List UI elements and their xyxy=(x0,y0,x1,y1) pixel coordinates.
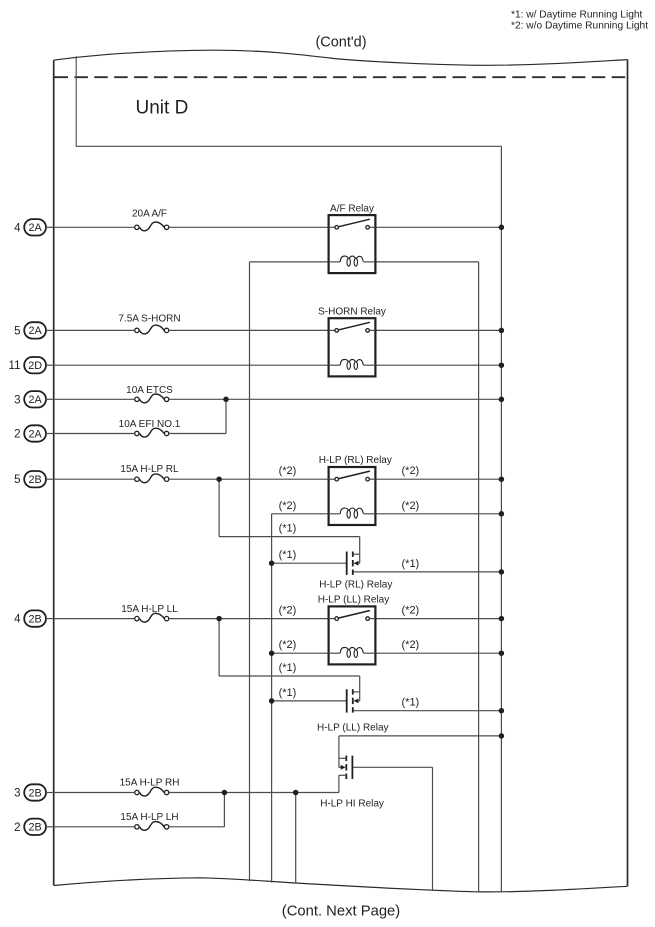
RL transistor drain riser xyxy=(359,537,361,555)
terminal 5 2A xyxy=(14,322,54,338)
fuse 15A H-LP RL xyxy=(120,464,179,483)
wire fuse ETCS to bus xyxy=(169,398,501,400)
junction bus D y=330.4 xyxy=(499,328,505,334)
svg-text:(*2): (*2) xyxy=(279,605,297,617)
riser down from RH line xyxy=(295,793,297,884)
svg-text:H-LP HI Relay: H-LP HI Relay xyxy=(320,798,384,809)
svg-text:(*2): (*2) xyxy=(402,605,420,617)
svg-text:(*2): (*2) xyxy=(279,465,297,477)
svg-text:(*2): (*2) xyxy=(402,639,420,651)
relay H-LP RL xyxy=(319,455,392,525)
svg-text:10A ETCS: 10A ETCS xyxy=(126,385,173,396)
junction RH riser xyxy=(293,790,299,796)
wire RL switch out to bus xyxy=(375,478,501,480)
fuse 15A H-LP LH xyxy=(120,812,178,831)
svg-text:(*2): (*2) xyxy=(279,639,297,651)
wire 4 2B to fuse H-LP LL xyxy=(54,618,135,620)
svg-text:(*1): (*1) xyxy=(279,549,297,561)
svg-text:A/F Relay: A/F Relay xyxy=(330,203,374,214)
page top torn edge xyxy=(54,50,628,65)
Unit D enclosure xyxy=(76,56,501,146)
svg-text:4: 4 xyxy=(14,614,21,626)
svg-text:(*2): (*2) xyxy=(402,465,420,477)
terminal 2 2A xyxy=(14,425,54,441)
junction bus D y=399.3 xyxy=(499,397,505,403)
wire 2 2A to fuse EFI xyxy=(54,433,135,435)
svg-text:4: 4 xyxy=(14,222,21,234)
HI transistor source riser xyxy=(338,775,340,792)
svg-text:(*2): (*2) xyxy=(402,500,420,512)
junction ETCS/EFI xyxy=(223,397,229,403)
svg-text:2: 2 xyxy=(14,429,20,441)
svg-text:3: 3 xyxy=(14,394,20,406)
HI transistor drain riser xyxy=(338,736,340,758)
bus D vertical xyxy=(500,146,502,892)
terminal 2 2B xyxy=(14,819,54,835)
fuse 10A EFI NO.1 xyxy=(119,419,181,437)
junction bus B y=653.2 xyxy=(269,650,275,656)
wire bus B to LL relay coil xyxy=(272,652,329,654)
fuse 15A H-LP RH xyxy=(120,778,180,797)
wire RL branch to transistor drain top xyxy=(219,536,360,538)
svg-text:2B: 2B xyxy=(28,787,41,799)
svg-text:11: 11 xyxy=(9,360,21,372)
svg-text:2B: 2B xyxy=(28,613,41,625)
svg-text:*2: w/o Daytime Running Light: *2: w/o Daytime Running Light xyxy=(511,21,648,32)
riser LL branch xyxy=(218,619,220,676)
fuse 10A ETCS xyxy=(126,385,173,403)
wire fuse RH to HI transistor source xyxy=(169,792,339,794)
svg-text:15A H-LP LH: 15A H-LP LH xyxy=(120,812,178,823)
svg-text:7.5A S-HORN: 7.5A S-HORN xyxy=(118,313,180,324)
junction bus D y=653.2 xyxy=(499,650,505,656)
wire fuse LL to LL relay switch xyxy=(169,618,328,620)
relay S-HORN xyxy=(318,306,386,376)
junction bus D y=365.2 xyxy=(499,362,505,368)
svg-text:(Cont. Next Page): (Cont. Next Page) xyxy=(282,904,400,920)
page left border xyxy=(53,60,55,885)
junction RL branch xyxy=(216,476,222,482)
wire S-HORN switch out to bus xyxy=(375,329,501,331)
terminal 11 2D xyxy=(9,357,54,373)
wire LL branch to transistor drain top xyxy=(219,675,360,677)
wire 11 2D to S-HORN relay coil xyxy=(54,364,329,366)
wire LL switch out to bus xyxy=(375,618,501,620)
svg-text:20A A/F: 20A A/F xyxy=(132,209,167,220)
junction bus D y=735.9 xyxy=(499,733,505,739)
wire HI transistor gate out xyxy=(352,766,432,768)
svg-text:(*1): (*1) xyxy=(279,523,297,535)
page bottom torn edge xyxy=(54,878,628,892)
fuse 7.5A S-HORN xyxy=(118,313,180,334)
junction bus D y=227.3 xyxy=(499,225,505,231)
wire LL transistor source to bus xyxy=(353,710,502,712)
svg-text:2A: 2A xyxy=(28,428,42,440)
junction bus D y=513.8 xyxy=(499,511,505,517)
svg-text:(Cont'd): (Cont'd) xyxy=(315,34,366,50)
HI gate drop to edge xyxy=(432,767,434,891)
wire fuse RL to RL relay switch xyxy=(169,478,328,480)
svg-text:2B: 2B xyxy=(28,474,41,486)
wire RL coil out to bus xyxy=(375,513,501,515)
terminal 5 2B xyxy=(14,471,54,487)
svg-text:S-HORN Relay: S-HORN Relay xyxy=(318,306,386,317)
junction bus D y=710.7 xyxy=(499,708,505,714)
wire 2 2B to fuse H-LP LH xyxy=(54,826,135,828)
junction bus D y=571.9 xyxy=(499,569,505,575)
wire fuse LH to riser xyxy=(169,826,224,828)
terminal 3 2B xyxy=(14,784,54,800)
wire S-HORN coil out to bus xyxy=(375,364,501,366)
dashed separator xyxy=(55,76,628,78)
junction bus D y=479.2 xyxy=(499,476,505,482)
relay H-LP LL xyxy=(318,595,390,665)
wire fuse A/F to A/F relay switch xyxy=(169,226,328,228)
junction RH/LH xyxy=(222,790,228,796)
junction bus B y=700.9 xyxy=(269,698,275,704)
svg-text:2A: 2A xyxy=(28,325,42,337)
svg-text:2: 2 xyxy=(14,822,20,834)
svg-text:(*1): (*1) xyxy=(402,696,420,708)
svg-text:15A H-LP RL: 15A H-LP RL xyxy=(120,464,179,475)
transistor H-LP HI relay (solid state) xyxy=(339,756,353,779)
svg-text:Unit D: Unit D xyxy=(136,97,189,118)
wire 3 2A to fuse ETCS xyxy=(54,398,135,400)
fuse 20A A/F xyxy=(132,209,169,231)
terminal 4 2B xyxy=(14,610,54,626)
svg-text:(*2): (*2) xyxy=(279,500,297,512)
svg-text:15A H-LP RH: 15A H-LP RH xyxy=(120,778,180,789)
wire RL transistor source to bus xyxy=(353,571,502,573)
terminal 3 2A xyxy=(14,391,54,407)
wire LL coil out to bus xyxy=(375,652,501,654)
svg-text:2B: 2B xyxy=(28,822,41,834)
relay A/F xyxy=(329,203,376,273)
transistor H-LP LL relay (solid state) xyxy=(347,689,360,712)
LL transistor drain riser xyxy=(359,676,361,692)
svg-text:5: 5 xyxy=(14,474,20,486)
svg-text:2A: 2A xyxy=(28,222,42,234)
wire HI transistor drain to bus xyxy=(339,735,502,737)
svg-text:H-LP (RL) Relay: H-LP (RL) Relay xyxy=(319,455,392,466)
svg-text:2A: 2A xyxy=(28,394,42,406)
wire bus B to LL transistor gate xyxy=(272,700,347,702)
page right border xyxy=(627,60,629,887)
bus C vertical xyxy=(478,262,480,892)
wire fuse EFI to junction riser xyxy=(169,433,226,435)
wire A/F relay switch out to bus xyxy=(375,226,501,228)
bus B vertical xyxy=(271,514,273,883)
riser EFI join xyxy=(225,399,227,433)
bus A vertical xyxy=(249,262,251,881)
svg-text:*1: w/ Daytime Running Light: *1: w/ Daytime Running Light xyxy=(511,9,643,20)
svg-text:(*1): (*1) xyxy=(279,662,297,674)
svg-text:(*1): (*1) xyxy=(402,558,420,570)
riser RL branch xyxy=(218,479,220,536)
junction LL branch xyxy=(216,616,222,622)
fuse 15A H-LP LL xyxy=(121,604,178,622)
svg-text:H-LP (LL) Relay: H-LP (LL) Relay xyxy=(318,595,390,606)
riser LH join xyxy=(223,793,225,827)
svg-text:H-LP (RL) Relay: H-LP (RL) Relay xyxy=(319,580,392,591)
wire bus B to RL transistor gate xyxy=(272,562,347,564)
svg-text:5: 5 xyxy=(14,325,20,337)
wire 5 2A to fuse S-HORN xyxy=(54,329,135,331)
wire 5 2B to fuse H-LP RL xyxy=(54,478,135,480)
wire fuse S-HORN to relay switch xyxy=(169,329,328,331)
wire A/F relay coil out to bus C xyxy=(375,261,478,263)
junction bus D y=618.6 xyxy=(499,616,505,622)
svg-text:2D: 2D xyxy=(28,360,42,372)
wire bus A to A/F relay coil xyxy=(250,261,329,263)
svg-text:15A H-LP LL: 15A H-LP LL xyxy=(121,604,178,615)
wire bus B to RL relay coil xyxy=(272,513,329,515)
wire 4 2A to fuse A/F xyxy=(54,226,135,228)
wire 3 2B to fuse H-LP RH xyxy=(54,792,135,794)
transistor H-LP RL relay (solid state) xyxy=(347,552,360,575)
svg-text:H-LP (LL) Relay: H-LP (LL) Relay xyxy=(317,722,389,733)
junction bus B y=563.2 xyxy=(269,560,275,566)
terminal 4 2A xyxy=(14,219,54,235)
svg-text:(*1): (*1) xyxy=(279,687,297,699)
svg-text:10A EFI NO.1: 10A EFI NO.1 xyxy=(119,419,181,430)
svg-text:3: 3 xyxy=(14,788,20,800)
